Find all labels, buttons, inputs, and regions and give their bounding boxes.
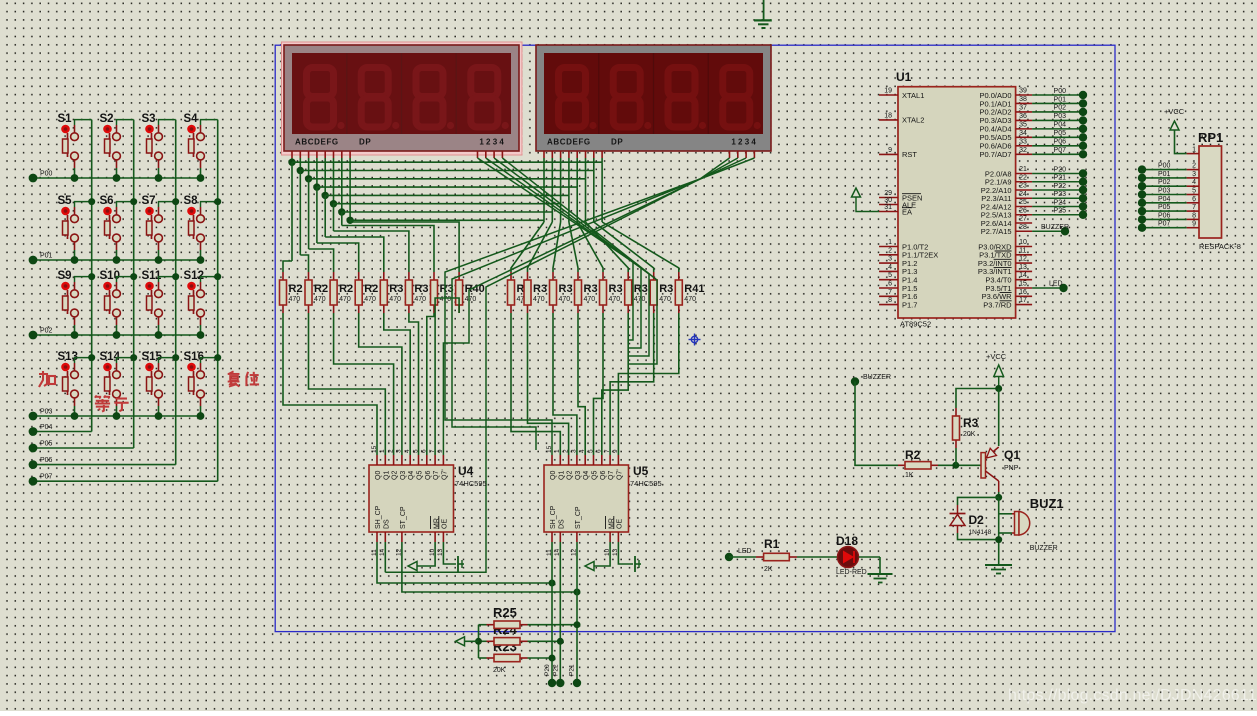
svg-text:P22: P22 bbox=[553, 664, 560, 676]
svg-text:XTAL2: XTAL2 bbox=[902, 116, 924, 125]
svg-text:7: 7 bbox=[888, 289, 892, 296]
svg-text:26: 26 bbox=[1019, 207, 1027, 214]
svg-text:R3: R3 bbox=[414, 283, 428, 295]
svg-text:32: 32 bbox=[1019, 147, 1027, 154]
svg-text:15: 15 bbox=[371, 445, 378, 453]
svg-text:https://blog.csdn.net/DJDN4266: https://blog.csdn.net/DJDN426611 bbox=[1008, 687, 1257, 704]
svg-text:74HC595: 74HC595 bbox=[455, 479, 487, 488]
svg-text:24: 24 bbox=[1019, 191, 1027, 198]
svg-text:U4: U4 bbox=[458, 464, 474, 478]
svg-text:Q4: Q4 bbox=[408, 471, 415, 480]
svg-text:P21: P21 bbox=[1054, 175, 1067, 182]
svg-text:U5: U5 bbox=[633, 464, 649, 478]
svg-text:R40: R40 bbox=[465, 283, 485, 295]
svg-text:P07: P07 bbox=[40, 474, 53, 481]
svg-text:P23: P23 bbox=[1054, 191, 1067, 198]
svg-text:1: 1 bbox=[1192, 147, 1196, 154]
svg-text:Q7': Q7' bbox=[441, 469, 448, 480]
svg-text:6: 6 bbox=[596, 449, 603, 453]
svg-text:R3: R3 bbox=[533, 283, 547, 295]
svg-text:P05: P05 bbox=[40, 441, 53, 448]
svg-text:470: 470 bbox=[289, 296, 301, 303]
svg-text:P20: P20 bbox=[544, 664, 551, 676]
svg-text:Q5: Q5 bbox=[592, 471, 599, 480]
svg-text:23: 23 bbox=[1019, 183, 1027, 190]
svg-text:S8: S8 bbox=[184, 195, 199, 207]
svg-text:P20: P20 bbox=[1054, 166, 1067, 173]
svg-text:2: 2 bbox=[1192, 163, 1196, 170]
svg-text:Q6: Q6 bbox=[425, 471, 432, 480]
svg-text:DP: DP bbox=[611, 138, 623, 147]
svg-text:6: 6 bbox=[1192, 196, 1196, 203]
svg-text:R3: R3 bbox=[584, 283, 598, 295]
svg-text:OE: OE bbox=[617, 519, 624, 529]
svg-text:ABCDEFG: ABCDEFG bbox=[547, 138, 591, 147]
svg-text:27: 27 bbox=[1019, 216, 1027, 223]
svg-text:P06: P06 bbox=[1054, 139, 1067, 146]
svg-text:R2: R2 bbox=[314, 283, 328, 295]
svg-text:P07: P07 bbox=[1054, 147, 1067, 154]
svg-text:10: 10 bbox=[1019, 239, 1027, 246]
svg-text:2: 2 bbox=[387, 449, 394, 453]
svg-text:S6: S6 bbox=[100, 195, 114, 207]
svg-text:Q3: Q3 bbox=[400, 471, 407, 480]
svg-text:470: 470 bbox=[389, 296, 401, 303]
svg-text:470: 470 bbox=[584, 296, 596, 303]
svg-text:DP: DP bbox=[359, 138, 371, 147]
svg-text:2: 2 bbox=[888, 247, 892, 254]
svg-text:RESPACK-8: RESPACK-8 bbox=[1199, 242, 1241, 251]
svg-text:P01: P01 bbox=[1054, 96, 1067, 103]
svg-text:PNP: PNP bbox=[1004, 465, 1019, 472]
svg-text:EA: EA bbox=[902, 207, 912, 216]
svg-text:3: 3 bbox=[396, 449, 403, 453]
svg-text:18: 18 bbox=[884, 112, 892, 119]
svg-text:P2.7/A15: P2.7/A15 bbox=[981, 227, 1012, 236]
svg-text:8: 8 bbox=[888, 297, 892, 304]
svg-text:R41: R41 bbox=[684, 283, 704, 295]
svg-text:Q0: Q0 bbox=[375, 471, 382, 480]
svg-text:Q0: Q0 bbox=[550, 471, 557, 480]
svg-text:P01: P01 bbox=[40, 253, 53, 260]
svg-text:R2: R2 bbox=[364, 283, 378, 295]
svg-text:5: 5 bbox=[1192, 188, 1196, 195]
svg-text:R3: R3 bbox=[389, 283, 403, 295]
svg-text:1: 1 bbox=[888, 239, 892, 246]
svg-text:BUZZER: BUZZER bbox=[1030, 545, 1058, 552]
svg-text:XTAL1: XTAL1 bbox=[902, 91, 924, 100]
svg-text:S7: S7 bbox=[142, 195, 156, 207]
svg-text:R2: R2 bbox=[339, 283, 353, 295]
svg-text:Q1: Q1 bbox=[1004, 448, 1020, 462]
svg-text:+VCC: +VCC bbox=[986, 352, 1007, 361]
svg-text:Q7: Q7 bbox=[433, 471, 440, 480]
svg-text:P06: P06 bbox=[40, 457, 53, 464]
svg-text:S3: S3 bbox=[142, 113, 156, 125]
svg-text:7: 7 bbox=[604, 449, 611, 453]
svg-text:D2: D2 bbox=[969, 513, 985, 527]
svg-text:LED-RED: LED-RED bbox=[836, 569, 867, 576]
svg-text:2: 2 bbox=[562, 449, 569, 453]
svg-text:5: 5 bbox=[888, 272, 892, 279]
svg-text:8: 8 bbox=[1192, 212, 1196, 219]
svg-text:16: 16 bbox=[1019, 289, 1027, 296]
svg-text:4: 4 bbox=[888, 264, 892, 271]
svg-text:9: 9 bbox=[1192, 221, 1196, 228]
svg-text:20K: 20K bbox=[963, 431, 976, 438]
svg-text:6: 6 bbox=[421, 449, 428, 453]
svg-text:38: 38 bbox=[1019, 96, 1027, 103]
svg-text:470: 470 bbox=[684, 296, 696, 303]
svg-text:15: 15 bbox=[546, 445, 553, 453]
svg-text:28: 28 bbox=[1019, 224, 1027, 231]
svg-text:39: 39 bbox=[1019, 88, 1027, 95]
svg-text:P03: P03 bbox=[1158, 188, 1171, 195]
svg-text:ST_CP: ST_CP bbox=[575, 506, 582, 529]
svg-text:S2: S2 bbox=[100, 113, 114, 125]
svg-text:P07: P07 bbox=[1158, 221, 1171, 228]
svg-text:17: 17 bbox=[1019, 297, 1027, 304]
svg-text:3: 3 bbox=[571, 449, 578, 453]
svg-text:P02: P02 bbox=[1054, 105, 1067, 112]
svg-text:1: 1 bbox=[379, 449, 386, 453]
svg-text:Q7': Q7' bbox=[616, 469, 623, 480]
svg-text:R2: R2 bbox=[905, 448, 921, 462]
svg-text:22: 22 bbox=[1019, 174, 1027, 181]
svg-text:4: 4 bbox=[404, 449, 411, 453]
svg-text:S5: S5 bbox=[58, 195, 73, 207]
svg-text:1: 1 bbox=[554, 449, 561, 453]
svg-text:470: 470 bbox=[314, 296, 326, 303]
svg-text:35: 35 bbox=[1019, 121, 1027, 128]
svg-text:R25: R25 bbox=[493, 605, 517, 620]
svg-text:P05: P05 bbox=[1158, 204, 1171, 211]
svg-text:Q1: Q1 bbox=[558, 471, 565, 480]
svg-text:4: 4 bbox=[1192, 179, 1196, 186]
svg-text:37: 37 bbox=[1019, 104, 1027, 111]
svg-text:470: 470 bbox=[634, 296, 646, 303]
svg-text:7: 7 bbox=[1192, 204, 1196, 211]
svg-text:11: 11 bbox=[1019, 247, 1026, 254]
svg-text:P03: P03 bbox=[40, 409, 53, 416]
svg-text:30: 30 bbox=[884, 197, 892, 204]
svg-text:Q2: Q2 bbox=[567, 471, 574, 480]
svg-text:AT89C52: AT89C52 bbox=[900, 320, 931, 329]
svg-text:R3: R3 bbox=[559, 283, 573, 295]
svg-text:1K: 1K bbox=[905, 472, 914, 479]
svg-text:ABCDEFG: ABCDEFG bbox=[295, 138, 339, 147]
svg-text:7: 7 bbox=[429, 449, 436, 453]
svg-text:470: 470 bbox=[339, 296, 351, 303]
svg-text:Q1: Q1 bbox=[383, 471, 390, 480]
svg-text:21: 21 bbox=[1019, 166, 1027, 173]
svg-text:31: 31 bbox=[884, 204, 892, 211]
svg-text:R3: R3 bbox=[963, 416, 979, 430]
svg-text:12: 12 bbox=[1019, 256, 1027, 263]
svg-text:LED: LED bbox=[1049, 281, 1063, 288]
svg-text:13: 13 bbox=[1019, 264, 1027, 271]
svg-text:R3: R3 bbox=[659, 283, 673, 295]
svg-text:Q4: Q4 bbox=[583, 471, 590, 480]
svg-text:P22: P22 bbox=[1054, 183, 1067, 190]
svg-text:OE: OE bbox=[442, 519, 449, 529]
svg-text:U1: U1 bbox=[896, 70, 912, 84]
svg-text:MR: MR bbox=[433, 518, 440, 529]
svg-text:Q6: Q6 bbox=[600, 471, 607, 480]
svg-text:Q2: Q2 bbox=[392, 471, 399, 480]
svg-text:P05: P05 bbox=[1054, 130, 1067, 137]
svg-text:9: 9 bbox=[437, 449, 444, 453]
svg-text:BUZZER: BUZZER bbox=[1041, 224, 1069, 231]
svg-text:33: 33 bbox=[1019, 138, 1027, 145]
svg-text:6: 6 bbox=[888, 281, 892, 288]
svg-text:P0.7/AD7: P0.7/AD7 bbox=[979, 150, 1011, 159]
svg-text:Q5: Q5 bbox=[417, 471, 424, 480]
svg-text:74HC595: 74HC595 bbox=[630, 479, 662, 488]
svg-text:470: 470 bbox=[659, 296, 671, 303]
svg-text:R3: R3 bbox=[609, 283, 623, 295]
svg-text:P3.7/RD: P3.7/RD bbox=[983, 300, 1012, 309]
svg-text:4: 4 bbox=[579, 449, 586, 453]
svg-text:15: 15 bbox=[1019, 281, 1027, 288]
svg-text:9: 9 bbox=[888, 147, 892, 154]
svg-text:P06: P06 bbox=[1158, 212, 1171, 219]
svg-text:D18: D18 bbox=[836, 534, 858, 548]
svg-text:P01: P01 bbox=[1158, 171, 1171, 178]
svg-text:14: 14 bbox=[1019, 272, 1027, 279]
svg-text:2K: 2K bbox=[764, 566, 773, 573]
svg-text:S1: S1 bbox=[58, 113, 73, 125]
svg-text:P04: P04 bbox=[1054, 122, 1067, 129]
svg-text:P04: P04 bbox=[40, 424, 53, 431]
svg-text:R1: R1 bbox=[764, 537, 780, 551]
svg-text:RST: RST bbox=[902, 150, 917, 159]
svg-text:DS: DS bbox=[559, 519, 566, 529]
svg-text:SH_CP: SH_CP bbox=[550, 505, 557, 529]
svg-text:470: 470 bbox=[414, 296, 426, 303]
svg-text:S9: S9 bbox=[58, 270, 72, 282]
svg-text:470: 470 bbox=[465, 296, 477, 303]
svg-text:P02: P02 bbox=[1158, 179, 1171, 186]
svg-text:RP1: RP1 bbox=[1198, 130, 1223, 145]
svg-text:470: 470 bbox=[609, 296, 621, 303]
svg-text:LED: LED bbox=[738, 548, 752, 555]
svg-text:3: 3 bbox=[888, 256, 892, 263]
svg-text:29: 29 bbox=[884, 190, 892, 197]
svg-text:P00: P00 bbox=[40, 171, 53, 178]
svg-text:P25: P25 bbox=[1054, 208, 1067, 215]
svg-text:1234: 1234 bbox=[479, 138, 506, 147]
svg-text:ST_CP: ST_CP bbox=[400, 506, 407, 529]
svg-text:P00: P00 bbox=[1054, 88, 1067, 95]
svg-text:DS: DS bbox=[384, 519, 391, 529]
svg-text:3: 3 bbox=[1192, 171, 1196, 178]
svg-text:P00: P00 bbox=[1158, 163, 1171, 170]
svg-text:34: 34 bbox=[1019, 130, 1027, 137]
svg-text:P1.7: P1.7 bbox=[902, 300, 917, 309]
svg-text:1234: 1234 bbox=[731, 138, 758, 147]
svg-text:P24: P24 bbox=[1054, 199, 1067, 206]
svg-text:P04: P04 bbox=[1158, 196, 1171, 203]
svg-text:Q7: Q7 bbox=[608, 471, 615, 480]
svg-text:470: 470 bbox=[364, 296, 376, 303]
svg-text:+VCC: +VCC bbox=[1164, 107, 1185, 116]
svg-text:5: 5 bbox=[587, 449, 594, 453]
svg-text:5: 5 bbox=[412, 449, 419, 453]
svg-text:Q3: Q3 bbox=[575, 471, 582, 480]
svg-text:36: 36 bbox=[1019, 113, 1027, 120]
svg-text:BUZZER: BUZZER bbox=[863, 374, 891, 381]
svg-text:BUZ1: BUZ1 bbox=[1030, 496, 1064, 511]
svg-text:P02: P02 bbox=[40, 328, 53, 335]
svg-text:19: 19 bbox=[884, 88, 892, 95]
svg-text:1N4148: 1N4148 bbox=[969, 529, 992, 536]
svg-text:25: 25 bbox=[1019, 199, 1027, 206]
svg-text:SH_CP: SH_CP bbox=[375, 505, 382, 529]
svg-text:R2: R2 bbox=[289, 283, 303, 295]
svg-text:470: 470 bbox=[559, 296, 571, 303]
svg-text:S4: S4 bbox=[184, 113, 199, 125]
svg-text:P03: P03 bbox=[1054, 113, 1067, 120]
svg-text:9: 9 bbox=[612, 449, 619, 453]
svg-text:P21: P21 bbox=[569, 664, 576, 676]
svg-text:470: 470 bbox=[533, 296, 545, 303]
svg-text:20K: 20K bbox=[493, 667, 506, 674]
